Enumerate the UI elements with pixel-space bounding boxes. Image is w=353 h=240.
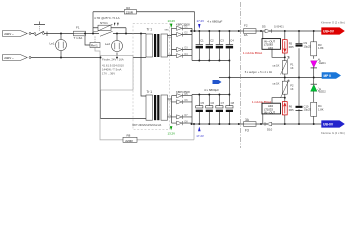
svg-text:10µ25: 10µ25 (304, 108, 312, 112)
svg-text:Le1: Le1 (50, 41, 55, 45)
svg-text:ca 1K: ca 1K (273, 63, 280, 67)
svg-text:1.8K: 1.8K (318, 107, 324, 111)
svg-text:0R5: 0R5 (289, 108, 294, 112)
svg-text:Klemme G (2 x 8m): Klemme G (2 x 8m) (321, 131, 345, 135)
svg-text:KBPC3508: KBPC3508 (176, 22, 190, 26)
svg-text:C3: C3 (220, 38, 224, 42)
svg-text:sec: sec (165, 28, 170, 31)
svg-text:13.2V: 13.2V (168, 132, 176, 136)
svg-text:10µ25: 10µ25 (304, 45, 312, 49)
svg-text:Finder, 24V / 16A: Finder, 24V / 16A (102, 58, 124, 62)
svg-text:Tr 1: Tr 1 (147, 28, 153, 32)
svg-text:MP 0: MP 0 (324, 74, 332, 78)
svg-text:UB+0V: UB+0V (323, 30, 335, 34)
svg-text:C7: C7 (221, 101, 225, 105)
svg-text:C6: C6 (211, 101, 215, 105)
svg-text:IN—OUT: IN—OUT (264, 110, 275, 114)
svg-text:D5: D5 (262, 24, 266, 28)
svg-text:F1: F1 (76, 26, 80, 30)
svg-text:R8: R8 (127, 134, 131, 138)
svg-text:UB-0V: UB-0V (323, 123, 334, 127)
svg-text:D10: D10 (267, 127, 273, 131)
svg-text:1.8K: 1.8K (318, 46, 324, 50)
svg-text:0R5: 0R5 (289, 45, 294, 49)
svg-text:17.2V: 17.2V (197, 19, 205, 23)
svg-text:C1: C1 (200, 38, 204, 42)
svg-text:LED1: LED1 (319, 61, 326, 65)
svg-text:Klemme G (2 x 8m): Klemme G (2 x 8m) (321, 21, 345, 25)
svg-text:240V ~: 240V ~ (4, 56, 14, 60)
svg-text:5 x aufgel. + 5 x 2 x 3A: 5 x aufgel. + 5 x 2 x 3A (245, 70, 273, 74)
svg-text:240V ~: 240V ~ (4, 32, 14, 36)
svg-text:T 1.6A: T 1.6A (74, 36, 83, 40)
svg-text:4 x 6800µF: 4 x 6800µF (204, 88, 219, 92)
svg-text:F2: F2 (244, 24, 248, 28)
svg-text:220R: 220R (126, 10, 134, 14)
svg-text:Tr 1: Tr 1 (147, 90, 153, 94)
svg-text:NTC1: NTC1 (100, 21, 108, 25)
svg-text:Le2: Le2 (105, 42, 110, 46)
svg-text:1K: 1K (290, 66, 293, 70)
svg-text:1 mA bis 65mA: 1 mA bis 65mA (243, 51, 262, 55)
svg-text:C4: C4 (230, 38, 234, 42)
svg-text:13.2V: 13.2V (168, 19, 176, 23)
svg-text:4.7R @25°C / 5.1A: 4.7R @25°C / 5.1A (94, 16, 120, 20)
svg-text:1N5401: 1N5401 (274, 24, 284, 28)
svg-text:220R: 220R (125, 139, 133, 143)
svg-text:C2: C2 (210, 38, 214, 42)
svg-text:1K: 1K (290, 87, 293, 91)
svg-text:C5: C5 (201, 101, 205, 105)
svg-text:RKT 230V/2x15V/2x2.2A: RKT 230V/2x15V/2x2.2A (133, 123, 162, 127)
svg-text:F3: F3 (245, 129, 249, 133)
svg-text:C8: C8 (231, 101, 235, 105)
svg-text:4 x 6800µF: 4 x 6800µF (207, 20, 222, 24)
svg-text:Rel 1: Rel 1 (91, 44, 98, 48)
svg-text:3A: 3A (244, 33, 248, 37)
svg-text:ADJ: ADJ (268, 46, 274, 50)
svg-text:1 mA bis 65mA: 1 mA bis 65mA (252, 100, 271, 104)
svg-text:ca 1K: ca 1K (273, 82, 280, 86)
svg-text:KBPC3508: KBPC3508 (176, 90, 190, 94)
svg-text:17.2V: 17.2V (196, 134, 204, 138)
svg-text:LED2: LED2 (319, 89, 326, 93)
svg-text:17V ...36V: 17V ...36V (102, 72, 115, 76)
